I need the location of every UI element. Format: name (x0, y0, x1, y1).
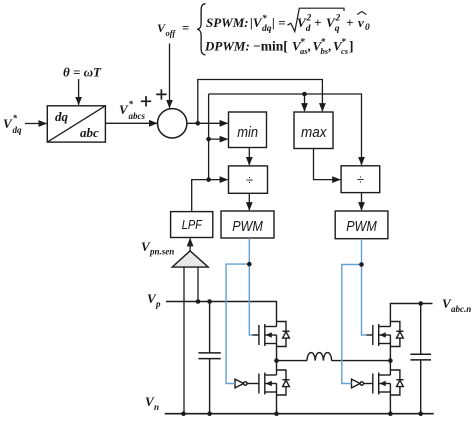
svg-text:,: , (328, 39, 332, 54)
junction node B at min input (206, 137, 211, 142)
junction C1 on V_n (207, 411, 212, 416)
svg-text:0: 0 (365, 23, 370, 33)
svg-text:dq: dq (13, 125, 23, 135)
mosfet Q1 upper-left body stub with arrow (265, 334, 277, 336)
svg-text:÷: ÷ (246, 173, 253, 188)
mosfet Q3 upper-right gate bar (372, 325, 374, 345)
junction gate wire left (247, 262, 252, 267)
svg-text:V: V (3, 116, 13, 131)
mosfet Q2 lower-left drain stub (265, 374, 277, 376)
wire LPF output up to node B (192, 180, 209, 212)
mosfet Q2 lower-left channel bar (264, 373, 266, 395)
wire node B vertical (208, 94, 210, 180)
wire left midpoint to inductor (277, 360, 308, 362)
junction C2 on V_n (418, 411, 423, 416)
formula brace (197, 4, 205, 55)
svg-text:÷: ÷ (357, 172, 364, 187)
wire max to right divider (314, 149, 341, 180)
svg-text:V: V (119, 102, 129, 117)
gate wire PWM right main (362, 239, 367, 335)
wire Q2 source to V_n (276, 384, 278, 414)
mosfet Q1 upper-left gate lead (253, 334, 259, 336)
svg-text:]: ] (349, 39, 354, 54)
block min (229, 112, 267, 148)
svg-text:|V: |V (250, 15, 263, 30)
sense amp input from V_n (183, 267, 185, 414)
mosfet Q1 upper-left body diode branch (277, 322, 287, 347)
svg-text:abc: abc (80, 125, 99, 140)
mosfet Q4 lower-right channel bar (378, 373, 380, 395)
junction Q2 source on V_n (274, 411, 279, 416)
junction Q4 source on V_n (388, 411, 393, 416)
wire V_off to summing junction (169, 44, 171, 108)
mosfet Q2 lower-left source stub (265, 391, 277, 393)
mosfet Q4 lower-right body diode branch (390, 370, 400, 395)
junction node B at divider input (206, 177, 211, 182)
mosfet Q2 lower-left gate lead (246, 383, 259, 385)
svg-text:LPF: LPF (182, 217, 203, 232)
block PWM left (221, 211, 274, 238)
wire Q1 source to midpoint (276, 335, 278, 361)
mosfet Q1 upper-left source stub (265, 343, 277, 345)
mosfet Q3 upper-right body diode branch (390, 322, 400, 347)
svg-text:2: 2 (306, 14, 312, 24)
svg-text:−min[: −min[ (253, 39, 288, 54)
svg-text:p: p (155, 299, 161, 309)
sense amplifier triangle (172, 251, 208, 267)
capacitor C1 bottom lead (209, 359, 211, 414)
junction right midpoint (388, 358, 393, 363)
radical sign (288, 8, 345, 31)
wire dq/abc to summing junction (105, 122, 157, 124)
wire node B branch into min (209, 138, 228, 140)
svg-text:*: * (262, 13, 267, 24)
wire node B branch into left divider (209, 179, 228, 181)
wire theta into dq/abc block (78, 79, 80, 105)
inverter lower-right bubble (360, 382, 363, 385)
mosfet Q1 upper-left body diode symbol (282, 330, 289, 332)
svg-text:pn.sen: pn.sen (149, 247, 174, 257)
mosfet Q1 upper-left channel bar (264, 324, 266, 346)
junction gate wire right (359, 262, 364, 267)
mosfet Q3 upper-right gate lead (366, 334, 373, 336)
wire right divider to PWM (361, 193, 363, 211)
svg-text:+: + (346, 15, 353, 30)
block dq/abc (47, 106, 105, 142)
svg-text:max: max (301, 124, 327, 141)
svg-text:abc.n: abc.n (451, 304, 471, 314)
svg-text:abcs: abcs (129, 111, 146, 121)
svg-text:d: d (306, 24, 311, 34)
svg-text:SPWM:: SPWM: (206, 15, 249, 30)
sense amp input from V_p (197, 267, 199, 301)
wire min to left divider (248, 148, 250, 166)
mosfet Q1 upper-left drain stub (265, 326, 277, 328)
svg-text:n: n (154, 402, 159, 412)
svg-text:,: , (307, 39, 311, 54)
mosfet Q2 lower-left body stub with arrow (265, 383, 277, 385)
mosfet Q3 upper-right drain stub (379, 326, 391, 328)
mosfet Q2 lower-left body diode symbol (282, 379, 289, 381)
hat over v0 (357, 12, 366, 15)
mosfet Q4 lower-right source stub (379, 391, 391, 393)
junction left midpoint (274, 358, 279, 363)
wire midpoint to Q2 drain (276, 361, 278, 375)
wire V_dq* input (25, 123, 46, 125)
mosfet Q2 lower-left body diode branch (277, 370, 287, 395)
svg-text:PWM: PWM (346, 218, 377, 235)
svg-text:| =: | = (272, 15, 286, 30)
svg-text:=: = (182, 21, 189, 35)
rail V_abc.n (390, 304, 432, 327)
mosfet Q1 upper-left gate bar (258, 325, 260, 345)
svg-text:DPWM:: DPWM: (204, 39, 250, 54)
svg-text:*: * (13, 113, 18, 123)
svg-text:*: * (129, 99, 134, 109)
block max (294, 112, 333, 149)
mosfet Q4 lower-right drain stub (379, 374, 391, 376)
plus sign vertical input (156, 89, 166, 99)
capacitor C1 top lead (209, 302, 211, 353)
svg-text:2: 2 (335, 14, 341, 24)
wire node B horizontal to right divider (209, 94, 362, 165)
inductor L (307, 353, 332, 361)
gate wire PWM left branch to inverter (226, 264, 249, 383)
svg-text:bs: bs (321, 46, 329, 56)
mosfet Q4 lower-right gate lead (362, 383, 373, 385)
junction C1 on V_p (207, 299, 212, 304)
mosfet Q3 upper-right source stub (379, 343, 391, 345)
inverter lower-left bubble (244, 382, 247, 385)
svg-text:v: v (358, 15, 364, 30)
rail V_p (166, 302, 277, 327)
junction amp input on V_n (181, 411, 186, 416)
block divider left (229, 166, 268, 193)
svg-text:dq: dq (55, 109, 69, 124)
wire midpoint to Q4 drain (389, 361, 391, 375)
plus sign horizontal input (141, 96, 151, 106)
svg-text:+: + (314, 15, 321, 30)
svg-text:cs: cs (341, 46, 349, 56)
mosfet Q3 upper-right body stub with arrow (379, 334, 391, 336)
mosfet Q2 lower-left gate bar (258, 374, 260, 394)
wire Q4 source to V_n (389, 384, 391, 414)
rail V_n (165, 413, 434, 415)
inverter lower-left triangle (235, 379, 244, 388)
svg-text:PWM: PWM (232, 218, 263, 235)
junction sum output (196, 121, 201, 126)
wire left divider to PWM (248, 193, 250, 210)
block LPF (171, 212, 213, 238)
mosfet Q4 lower-right body diode symbol (396, 379, 403, 381)
wire inductor to right midpoint (332, 360, 391, 362)
capacitor C2 top lead (420, 304, 422, 355)
gate wire PWM right branch to inverter (342, 265, 362, 384)
svg-text:min: min (237, 124, 258, 141)
wire sense amp to LPF (189, 238, 191, 250)
mosfet Q4 lower-right body stub with arrow (379, 383, 391, 385)
gate wire PWM left main (249, 238, 252, 335)
wire node A: sum output up/over to max (198, 80, 323, 124)
junction C2 on V_abc.n rail (418, 301, 423, 306)
mosfet Q4 lower-right gate bar (372, 374, 374, 394)
svg-text:as: as (300, 46, 308, 56)
capacitor C2 plates (410, 354, 431, 360)
mosfet Q3 upper-right body diode symbol (396, 330, 403, 332)
capacitor C1 plates (198, 353, 220, 359)
wire summing junction to min (187, 122, 228, 124)
block PWM right (335, 211, 388, 239)
block divider right (341, 166, 380, 193)
mosfet Q3 upper-right channel bar (378, 324, 380, 346)
svg-text:q: q (335, 24, 340, 34)
junction amp input on V_p (196, 299, 201, 304)
svg-text:off: off (166, 28, 177, 38)
inverter lower-right triangle (352, 379, 361, 388)
capacitor C2 bottom lead (420, 360, 422, 414)
wire Q3 source to midpoint (389, 335, 391, 361)
svg-text:θ = ωT: θ = ωT (63, 65, 102, 80)
wire node B branch into max (304, 94, 306, 111)
svg-text:dq: dq (262, 24, 272, 34)
summing junction (158, 109, 187, 138)
junction node B at max branch (302, 92, 307, 97)
